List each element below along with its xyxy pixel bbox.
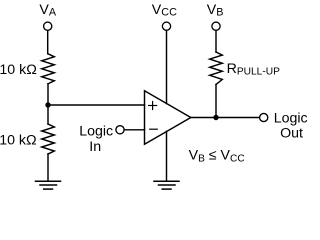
svg-text:In: In: [89, 139, 101, 155]
svg-text:Logic: Logic: [274, 111, 308, 127]
svg-text:Logic: Logic: [79, 123, 113, 139]
svg-text:Out: Out: [280, 125, 303, 141]
svg-text:10 kΩ: 10 kΩ: [0, 62, 37, 78]
svg-text:10 kΩ: 10 kΩ: [0, 133, 37, 149]
